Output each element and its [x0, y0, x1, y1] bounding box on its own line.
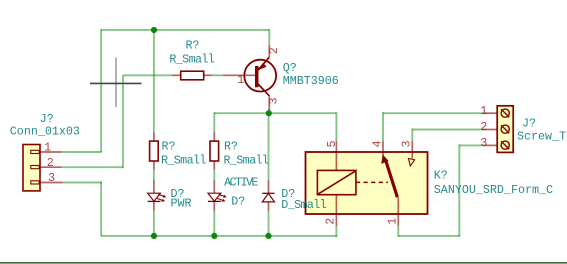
diode D3 triangle [262, 193, 274, 202]
wire to base resistor [123, 74, 172, 76]
svg-text:2: 2 [47, 156, 54, 170]
LED D2 cathode bar [208, 200, 221, 202]
resistor R3 col2 body [210, 141, 219, 161]
svg-text:D_Small: D_Small [281, 198, 326, 212]
LED D1 triangle [148, 193, 161, 201]
svg-text:3: 3 [48, 171, 55, 185]
wire col2 from node down [213, 112, 215, 132]
svg-text:D?: D? [231, 194, 245, 208]
wire left vertical to pin1 [100, 29, 102, 152]
wire top rail [101, 29, 269, 31]
junction rail col1 [151, 233, 157, 239]
wire relay pin5 riser [335, 112, 337, 141]
LED D1 arrow a [158, 194, 164, 196]
svg-text:MMBT3906: MMBT3906 [283, 74, 339, 88]
resistor R3 top pin [213, 132, 215, 141]
LED D2 top pin [213, 181, 215, 194]
wire relay pin3 riser [411, 129, 413, 142]
connector pin tab 2 [31, 166, 39, 169]
connector pin stub 2 [40, 166, 62, 168]
relay arm arrowhead [381, 155, 388, 164]
diode D3 cathode bar [262, 192, 274, 194]
svg-text:1: 1 [237, 73, 244, 87]
transistor Q1 emitter pin [268, 45, 270, 57]
svg-text:5: 5 [325, 140, 339, 147]
wire pin3 horizontal [63, 182, 102, 184]
cursor crosshair horizontal [90, 82, 142, 84]
svg-text:4: 4 [371, 140, 385, 147]
screw 3 slot [501, 141, 509, 149]
svg-text:1: 1 [480, 104, 487, 118]
LED D2 arrow b [218, 198, 224, 200]
svg-text:PWR: PWR [171, 196, 192, 210]
relay pin4 outer stub [382, 141, 384, 152]
screw 1 slot [501, 109, 509, 117]
svg-text:3: 3 [267, 97, 281, 104]
wire relay pin3 to screw pin2 [412, 129, 483, 131]
wire col1 LED to rail [153, 211, 155, 236]
connector pin stub 3 [40, 182, 63, 184]
relay pin1 inner stub [397, 198, 399, 215]
relay pin3 NO contact triangle [408, 158, 414, 166]
svg-text:J?: J? [522, 117, 536, 131]
wire pin2 horizontal [62, 166, 123, 168]
screw pin stub 1 [483, 112, 497, 114]
junction rail col2 [211, 233, 217, 239]
wire bottom ground rail [101, 235, 337, 237]
transistor Q1 emitter diagonal [258, 57, 269, 70]
relay pin3 inner stub [411, 152, 413, 158]
relay pin3 outer stub [411, 141, 413, 152]
wire col3 diode to rail [268, 211, 270, 236]
wire relay pin2 riser [335, 226, 337, 237]
LED D1 cathode bar [148, 200, 161, 202]
relay pin1 outer stub [397, 214, 399, 226]
relay pin5 outer stub [335, 141, 337, 152]
screw pin stub 3 [483, 144, 497, 146]
wire transistor emitter top [268, 29, 270, 45]
connector pin stub 1 [40, 151, 62, 153]
screw 1 circle [501, 109, 509, 117]
junction top rail [151, 27, 157, 33]
wire pin2 vertical up [122, 75, 124, 168]
wire transistor collector bottom [268, 109, 270, 113]
transistor Q1 base bar [255, 66, 259, 87]
relay dashed link [356, 181, 388, 183]
LED D2 triangle [208, 193, 221, 201]
LED D1 arrow b [157, 198, 163, 200]
svg-text:1: 1 [386, 218, 400, 225]
connector J1 body [23, 145, 40, 191]
resistor R2 bottom pin [153, 161, 155, 170]
LED D1 bottom pin [153, 201, 155, 210]
wire pin3 vertical down [100, 182, 102, 236]
wire screw pin3 horizontal [459, 144, 483, 146]
resistor R1 right pin [204, 74, 213, 76]
svg-text:2: 2 [267, 47, 281, 54]
LED D2 bottom pin [213, 201, 215, 210]
relay coil diagonal [318, 171, 356, 194]
wire col1 R to LED [153, 170, 155, 182]
diode D3 bottom pin [268, 202, 270, 211]
screw 3 circle [501, 141, 509, 149]
relay coil rect [317, 170, 356, 194]
svg-text:R?: R? [224, 139, 238, 153]
connector pin tab 1 [31, 150, 39, 153]
wire pin4 to screw pin1 [383, 112, 483, 114]
transistor Q1 emitter arrow [259, 63, 267, 70]
diode D3 top pin [268, 181, 270, 194]
wire col3 node to diode [268, 113, 270, 181]
transistor Q1 collector pin [268, 96, 270, 110]
relay pin2 inner stub [335, 195, 337, 214]
screw 2 slot [501, 125, 509, 133]
resistor R3 bottom pin [213, 161, 215, 170]
svg-text:R_Small: R_Small [169, 53, 214, 67]
svg-text:R?: R? [162, 139, 176, 153]
svg-text:SANYOU_SRD_Form_C: SANYOU_SRD_Form_C [434, 183, 553, 197]
LED D1 top pin [153, 181, 155, 194]
junction rail col3 [265, 233, 271, 239]
wire relay pin4 riser [382, 112, 384, 141]
wire col2 R to LED [213, 170, 215, 182]
wire pin1 horizontal [62, 151, 102, 153]
svg-text:Conn_01x03: Conn_01x03 [10, 125, 80, 139]
screw 2 circle [501, 125, 509, 133]
transistor Q1 base pin stub [223, 74, 255, 76]
relay arm [386, 160, 398, 198]
wire col1 upper [153, 30, 155, 132]
svg-text:R_Small: R_Small [161, 154, 206, 168]
wire collector node horizontal [214, 112, 336, 114]
wire col2 LED to rail [213, 211, 215, 236]
connector pin tab 3 [31, 181, 39, 184]
wire relay pin1 riser [397, 226, 399, 237]
svg-text:R?: R? [186, 39, 200, 53]
resistor R2 col1 body [150, 141, 159, 161]
screw terminal J2 body [497, 106, 513, 153]
relay pin4 inner stub [382, 152, 384, 161]
resistor R1 left pin [172, 74, 180, 76]
wire resistor to base stub [212, 74, 223, 76]
sheet bottom border [0, 262, 567, 264]
transistor Q1 collector diagonal [258, 84, 269, 96]
transistor Q1 circle [244, 60, 276, 92]
relay K1 body [306, 152, 428, 214]
wire relay pin1 to screw pin3 bottom [398, 235, 460, 237]
svg-text:R_Small: R_Small [224, 154, 269, 168]
svg-text:2: 2 [324, 218, 338, 225]
junction collector node [266, 110, 272, 116]
resistor R1 horizontal body [181, 71, 204, 80]
LED D2 arrow a [219, 194, 225, 196]
cursor crosshair vertical [115, 58, 117, 108]
svg-text:3: 3 [400, 140, 414, 147]
wire screw pin3 vertical down [458, 144, 460, 236]
screw pin stub 2 [483, 129, 497, 131]
svg-text:ACTIVE: ACTIVE [224, 176, 258, 190]
svg-text:3: 3 [480, 136, 487, 150]
resistor R2 top pin [153, 132, 155, 141]
relay pin2 outer stub [335, 214, 337, 226]
svg-text:2: 2 [480, 120, 487, 134]
svg-text:1: 1 [44, 141, 51, 155]
svg-text:Screw_Terminal_01x03: Screw_Terminal_01x03 [517, 130, 567, 144]
svg-text:K?: K? [434, 169, 448, 183]
relay pin5 inner stub [335, 152, 337, 170]
